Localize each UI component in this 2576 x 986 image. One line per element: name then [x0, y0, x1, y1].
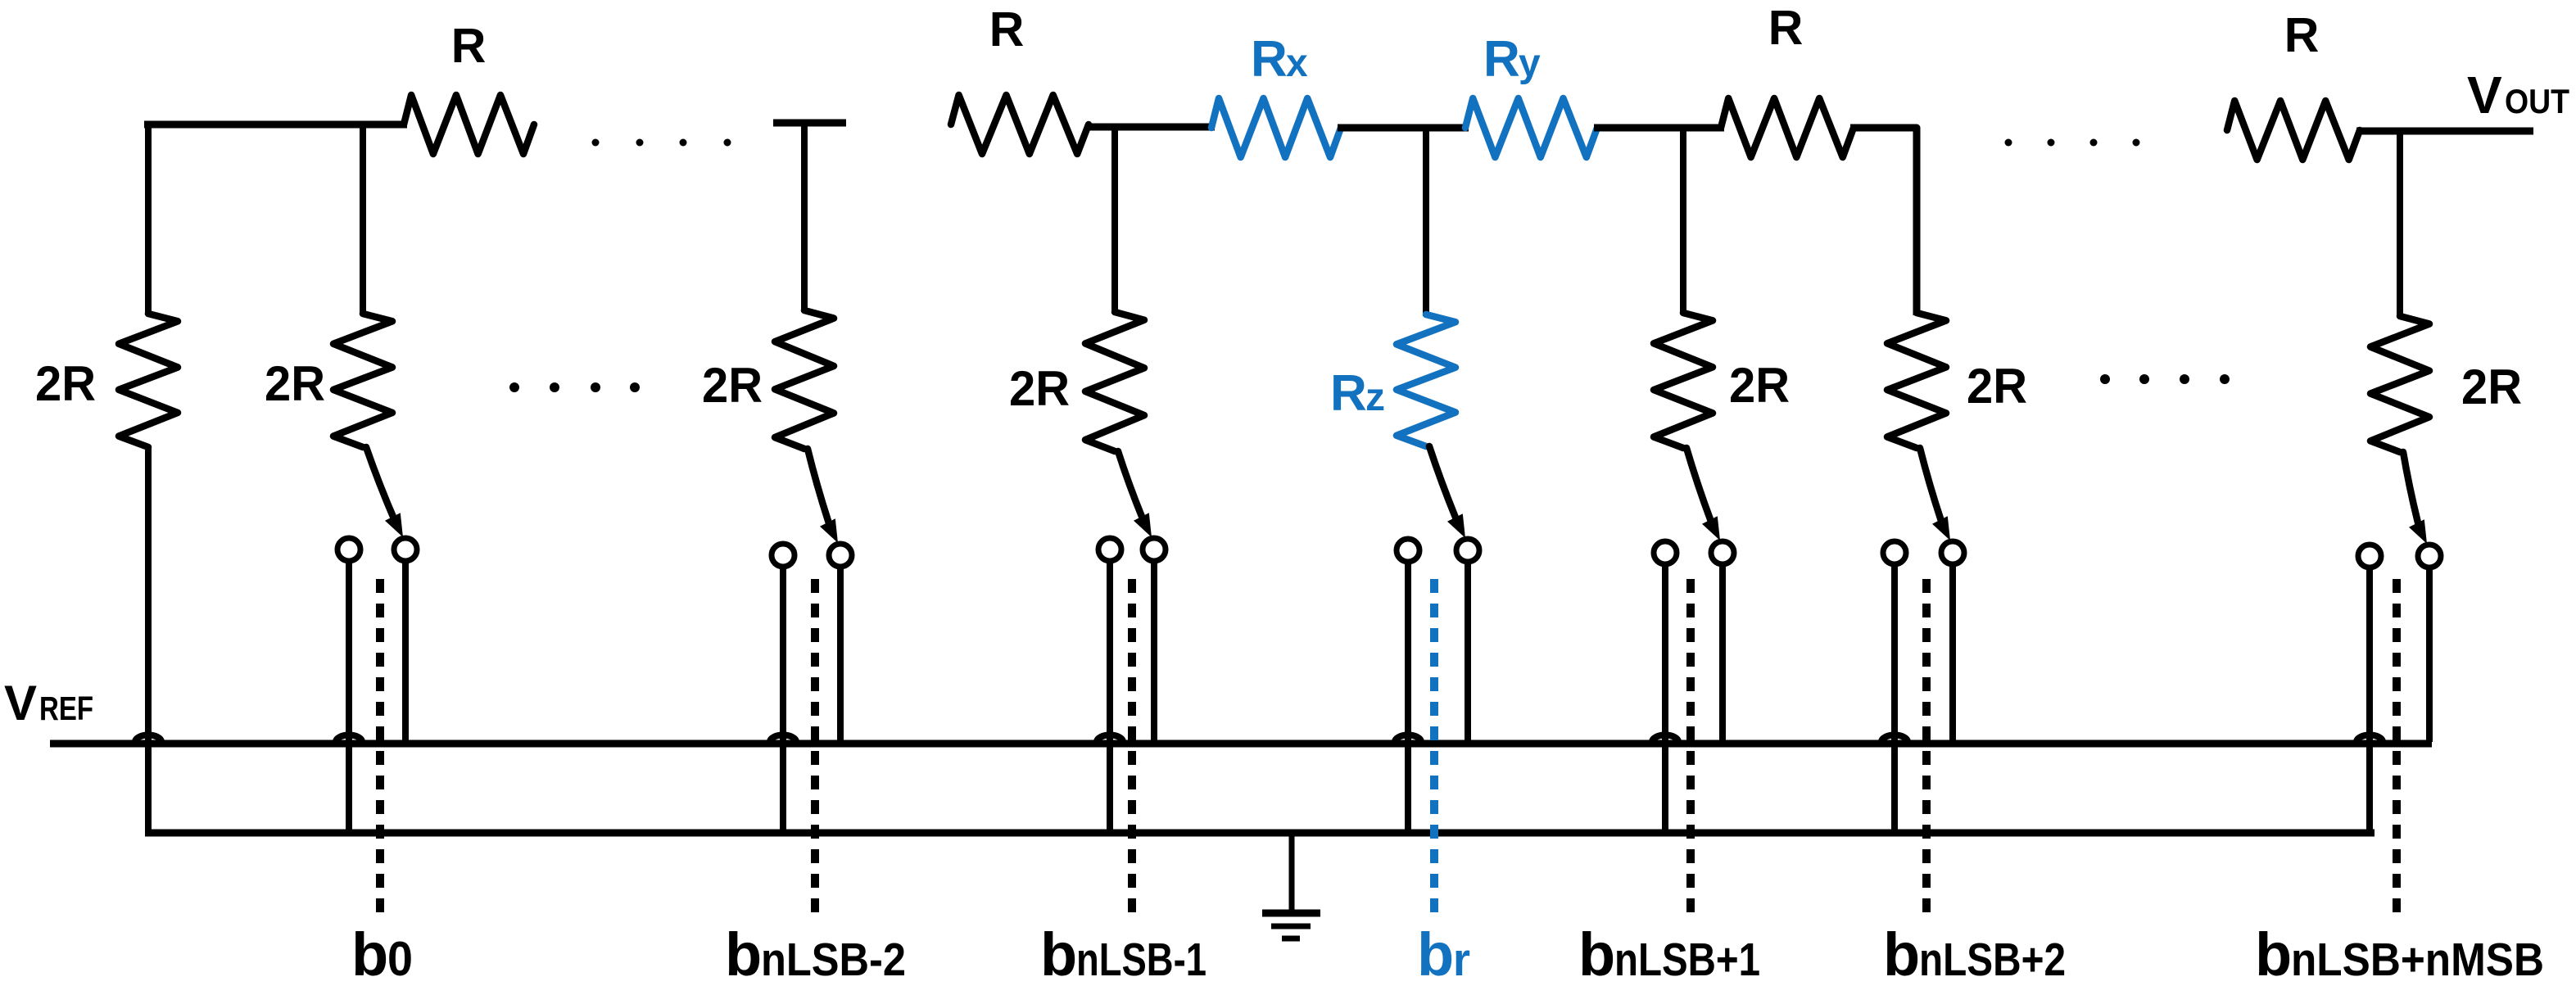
- svg-text:R: R: [1330, 365, 1367, 422]
- switch of branch bnLSB-1: [1118, 451, 1144, 522]
- resistor R (fourth, top-right): [2227, 101, 2360, 160]
- switch of branch bnLSB+2: [1920, 448, 1943, 526]
- wire top rail between Rx and Ry: [1338, 124, 1469, 132]
- wire branch terminator 2R vertical from top rail: [145, 124, 152, 315]
- wire bnLSB+2 right throw down to VREF rail: [1949, 567, 1956, 742]
- node continuation dots middle-right: [2100, 374, 2110, 384]
- svg-text:2R: 2R: [1009, 361, 1070, 416]
- wire hop over VREF rail: [135, 735, 161, 743]
- wire hop over VREF rail at b0: [336, 735, 362, 743]
- wire br (Rz) left throw down to ground bus: [1405, 564, 1411, 833]
- resistor R (third): [1721, 98, 1854, 157]
- svg-text:nLSB+1: nLSB+1: [1614, 934, 1760, 986]
- resistor 2R of branch bnLSB-2: [775, 310, 834, 449]
- svg-text:y: y: [1519, 42, 1541, 85]
- wire top rail between R and Rx: [1085, 124, 1215, 131]
- svg-text:2R: 2R: [265, 356, 325, 411]
- svg-text:nLSB+2: nLSB+2: [1919, 934, 2066, 986]
- wire branch b0 vertical from top rail: [360, 124, 366, 315]
- svg-text:b: b: [1883, 920, 1920, 986]
- wire bnLSB+2 left throw down to ground bus: [1891, 567, 1898, 833]
- svg-text:nLSB+nMSB: nLSB+nMSB: [2291, 934, 2544, 986]
- svg-text:R: R: [451, 19, 487, 73]
- resistor 2R of branch bnLSB+2: [1887, 313, 1946, 448]
- svg-text:x: x: [1286, 42, 1308, 85]
- switch of branch br (Rz): [1429, 446, 1458, 523]
- resistor 2R of branch terminator 2R: [119, 314, 178, 447]
- wire ground bus rail: [145, 830, 2375, 837]
- resistor 2R of branch bnLSB+1: [1654, 313, 1713, 448]
- wire hop over VREF rail at bnLSB+2: [1881, 735, 1908, 743]
- switch of branch bnLSB+nMSB: [2403, 452, 2420, 529]
- ground: [1289, 833, 1295, 911]
- svg-text:r: r: [1453, 934, 1470, 986]
- wire bnLSB+nMSB left throw down to ground bus: [2366, 570, 2373, 833]
- svg-text:R: R: [1768, 1, 1804, 55]
- control line br (Rz) (dashed): [1430, 579, 1438, 916]
- svg-text:2R: 2R: [702, 358, 763, 413]
- svg-text:OUT: OUT: [2505, 82, 2569, 120]
- svg-text:b: b: [351, 920, 388, 986]
- node continuation dots top-right: [2005, 139, 2012, 147]
- resistor 2R of branch br (Rz): [1397, 314, 1456, 446]
- node continuation dots middle-left: [509, 382, 519, 392]
- node continuation dots top-left: [592, 139, 600, 147]
- switch of branch bnLSB-2: [808, 449, 831, 528]
- wire hop over VREF rail at br (Rz): [1395, 735, 1421, 743]
- wire top rail stub at bnLSB-2: [773, 120, 846, 127]
- svg-text:z: z: [1365, 376, 1385, 419]
- wire branch bnLSB+nMSB vertical from top rail: [2397, 131, 2403, 318]
- wire hop over VREF rail at bnLSB+1: [1652, 735, 1678, 743]
- wire bnLSB+nMSB right throw down to VREF rail: [2426, 570, 2433, 742]
- resistor 2R of branch bnLSB-1: [1085, 312, 1144, 451]
- svg-text:b: b: [1578, 920, 1615, 986]
- wire VREF rail: [50, 740, 2432, 748]
- control line bnLSB-2 (dashed): [811, 579, 819, 916]
- svg-text:2R: 2R: [35, 356, 96, 411]
- svg-text:nLSB-1: nLSB-1: [1076, 934, 1207, 986]
- svg-text:2R: 2R: [2461, 360, 2522, 414]
- wire hop over VREF rail at bnLSB-1: [1097, 735, 1123, 743]
- control line bnLSB+nMSB (dashed): [2393, 579, 2401, 916]
- wire bnLSB+1 left throw down to ground bus: [1662, 567, 1668, 833]
- svg-text:REF: REF: [39, 690, 93, 727]
- wire top rail elbow into bnLSB+2 branch: [1850, 128, 1917, 315]
- wire top rail between Ry and R: [1594, 124, 1724, 132]
- wire top rail to VOUT: [2356, 128, 2533, 135]
- svg-text:2R: 2R: [1729, 358, 1790, 413]
- svg-text:b: b: [2255, 920, 2292, 986]
- svg-text:b: b: [1040, 920, 1077, 986]
- wire bnLSB-1 left throw down to ground bus: [1107, 563, 1113, 833]
- wire hop over VREF rail at bnLSB-2: [770, 735, 796, 743]
- wire b0 left throw down to ground bus: [346, 563, 352, 833]
- wire branch bnLSB+1 vertical from top rail: [1680, 128, 1686, 314]
- wire top rail left segment: [144, 121, 407, 129]
- resistor R (second): [951, 95, 1089, 154]
- svg-text:R: R: [1483, 31, 1520, 88]
- wire br (Rz) right throw down to VREF rail: [1465, 564, 1471, 742]
- wire branch bnLSB-2 vertical from top rail: [801, 123, 808, 312]
- wire bnLSB-2 right throw down to VREF rail: [837, 569, 844, 742]
- svg-text:V: V: [2467, 66, 2502, 124]
- control line bnLSB-1 (dashed): [1128, 579, 1136, 916]
- resistor 2R of branch bnLSB+nMSB: [2370, 316, 2429, 452]
- wire branch br (Rz) vertical from top rail: [1423, 128, 1429, 316]
- switch of branch b0: [366, 447, 396, 522]
- resistor Ry (blue): [1465, 98, 1597, 157]
- control line bnLSB+1 (dashed): [1686, 579, 1695, 916]
- wire hop over VREF rail at bnLSB+nMSB: [2356, 735, 2383, 743]
- wire bnLSB-2 left throw down to ground bus: [780, 569, 786, 833]
- svg-text:b: b: [1417, 920, 1454, 986]
- svg-text:b: b: [725, 920, 762, 986]
- wire bnLSB-1 right throw down to VREF rail: [1151, 563, 1157, 742]
- resistor R (first, top-left): [404, 95, 534, 154]
- control line bnLSB+2 (dashed): [1922, 579, 1931, 916]
- svg-text:V: V: [4, 676, 37, 730]
- switch of branch bnLSB+1: [1686, 448, 1713, 526]
- wire terminator down to ground bus: [145, 446, 152, 833]
- svg-text:2R: 2R: [1967, 359, 2027, 414]
- wire bnLSB+1 right throw down to VREF rail: [1719, 567, 1726, 742]
- resistor 2R of branch b0: [333, 314, 392, 447]
- svg-text:0: 0: [387, 932, 413, 986]
- wire b0 right throw down to VREF rail: [402, 563, 409, 742]
- resistor Rx (blue): [1211, 98, 1341, 157]
- svg-text:R: R: [1251, 31, 1288, 88]
- svg-text:R: R: [989, 2, 1025, 57]
- control line b0 (dashed): [376, 579, 384, 916]
- wire branch bnLSB-1 vertical from top rail: [1111, 127, 1118, 314]
- svg-text:R: R: [2284, 8, 2320, 62]
- svg-text:nLSB-2: nLSB-2: [761, 934, 906, 986]
